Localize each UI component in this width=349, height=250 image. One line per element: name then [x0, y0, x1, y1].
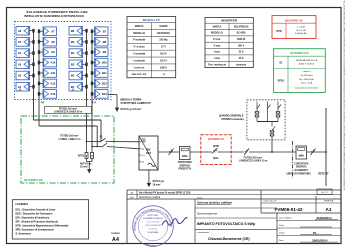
svg-text:B4: B4 [71, 51, 75, 55]
svg-text:ENERGIA: ENERGIA [180, 164, 191, 167]
svg-text:B11: B11 [102, 71, 107, 75]
PV module B6 [69, 26, 83, 35]
svg-text:I nominale: I nominale [133, 60, 145, 62]
svg-text:committente:: committente: [197, 231, 210, 234]
optimizer connector B9 [91, 50, 95, 54]
title field: data modifica [279, 216, 338, 220]
PV module A1 [16, 82, 30, 91]
svg-text:37 V: 37 V [161, 47, 166, 49]
label: formato A4 [111, 232, 121, 243]
svg-text:MTD : Interruttore Magnetoterm: MTD : Interruttore Magnetotermico Differ… [16, 224, 69, 227]
wire: PV structure earthing [108, 95, 119, 113]
label: quadro generale utente [219, 115, 244, 121]
optimizer connector A5 [30, 40, 35, 44]
PV module A2 [16, 71, 30, 80]
node (-) group B [72, 88, 75, 92]
svg-text:Diseg.: Diseg. [279, 232, 285, 234]
wire: meter M1 to quadro AC [190, 151, 212, 153]
wire: pole minus to switch [87, 141, 101, 143]
label: ac cable 10 m [239, 155, 268, 162]
svg-text:Codice Dis. N°: Codice Dis. N° [263, 201, 277, 203]
svg-text:presente: presente [236, 63, 246, 66]
svg-text:N07V-K gn 16 mm²: N07V-K gn 16 mm² [121, 107, 142, 111]
svg-text:P nom.: P nom. [213, 39, 221, 41]
optimizer connector A4 [30, 51, 35, 55]
optimizer connector A2 [30, 74, 35, 78]
switch S1 [99, 136, 107, 148]
PV module A10 [43, 58, 57, 67]
meter M1 (energia prodotta) [180, 147, 191, 160]
PV module B13 [95, 90, 109, 99]
wire: to meter M2 [249, 151, 296, 153]
svg-text:A4: A4 [18, 51, 22, 55]
node (-) group A [19, 88, 22, 92]
label: string cable 30 m [45, 106, 92, 113]
wire: string A minus to bus [34, 120, 102, 142]
svg-text:kWh: kWh [182, 155, 188, 158]
svg-text:A3: A3 [18, 62, 22, 66]
engineer stamp [133, 206, 174, 248]
optimizer connector B10 [91, 61, 95, 65]
node (+) group B [92, 100, 95, 104]
breaker MTD/DGL [212, 144, 219, 160]
svg-text:ND-R250A5: ND-R250A5 [157, 32, 170, 35]
grid busbar RETE BT [325, 108, 327, 186]
svg-text:B10: B10 [102, 61, 107, 65]
label: RETE BT [318, 172, 329, 175]
svg-text:tavola:: tavola: [197, 196, 203, 199]
margin note (rotated) [343, 0, 346, 190]
svg-text:A13: A13 [51, 92, 56, 96]
svg-text:IMPIANTO FOTOVOLTAICO 6 kWp: IMPIANTO FOTOVOLTAICO 6 kWp [197, 222, 256, 226]
svg-text:LEGENDA: LEGENDA [16, 202, 29, 206]
svg-text:Rev.: Rev. [130, 197, 135, 199]
PV module A8 [43, 37, 57, 46]
PV module A4 [16, 49, 30, 58]
svg-text:N07V-K gn: N07V-K gn [80, 163, 92, 165]
PV module A9 [43, 48, 57, 57]
svg-text:S: Generatore: S: Generatore [16, 232, 32, 235]
table: INVERTER [205, 17, 253, 67]
title block grid [127, 190, 341, 243]
svg-text:B12: B12 [102, 82, 107, 86]
svg-text:P nominale: P nominale [133, 40, 146, 42]
svg-text:B9: B9 [103, 50, 107, 54]
svg-text:30,3 V: 30,3 V [160, 54, 167, 56]
svg-text:QUADRO AC: QUADRO AC [208, 137, 225, 141]
optimizer connector A12 [38, 82, 43, 86]
svg-text:Up < 2600 V(dc): Up < 2600 V(dc) [299, 78, 314, 81]
optimizer connector B4 [83, 51, 88, 55]
optimizer connector B3 [83, 63, 88, 67]
svg-text:A9: A9 [51, 50, 55, 54]
inverter input terminals [139, 142, 145, 164]
svg-text:N07V-K gn: N07V-K gn [153, 181, 165, 183]
optimizer connector B13 [91, 92, 95, 96]
breaker DGL in QGU [270, 122, 275, 137]
svg-text:Denominazione:: Denominazione: [197, 211, 218, 215]
svg-text:LUNGH. LINEA 5 m: LUNGH. LINEA 5 m [59, 138, 81, 141]
svg-text:DGL : Dispositivo Generale di: DGL : Dispositivo Generale di Linea [16, 209, 56, 212]
QUADRO GENERALE UTENTE boundary (dashed box) [247, 100, 285, 140]
PV module B1 [69, 82, 83, 91]
PV generator boundary (dotted blue box) [15, 22, 112, 100]
PV module A3 [16, 60, 30, 69]
title field: impianto [197, 222, 256, 226]
wire: inverter AC output [158, 151, 180, 153]
PV module B4 [69, 49, 83, 58]
svg-text:INVERTER: INVERTER [221, 19, 237, 23]
PV module B12 [95, 79, 109, 88]
svg-text:INSTALLATI SU OGNI MODULO FOTO: INSTALLATI SU OGNI MODULO FOTOVOLTAICO [24, 14, 84, 18]
svg-text:STRUTTURA CAMPO PV: STRUTTURA CAMPO PV [121, 101, 152, 105]
table: MODULI PV [127, 17, 176, 78]
cable mark 3 [311, 149, 316, 156]
meter M2 (energia scambiata) [296, 146, 307, 159]
optimizer connector B12 [91, 82, 95, 86]
svg-text:MARCA: MARCA [213, 25, 222, 28]
label: inverter earth cable [153, 181, 165, 186]
svg-text:A10: A10 [51, 61, 56, 65]
svg-text:SPD1: SPD1 [278, 80, 285, 83]
svg-text:B13: B13 [102, 92, 107, 96]
svg-text:DGL: DGL [213, 156, 219, 160]
svg-text:23 A: 23 A [239, 51, 244, 54]
svg-text:MARCA: MARCA [135, 25, 144, 28]
svg-text:SOLAREDGE: SOLAREDGE [234, 25, 249, 28]
optimizer connector A11 [38, 71, 43, 75]
svg-text:A4: A4 [112, 237, 119, 243]
svg-text:iscrizione: iscrizione [149, 228, 157, 231]
title field: data [279, 238, 338, 242]
svg-text:Fg. 1/1: Fg. 1/1 [321, 192, 328, 194]
optimizer connector A10 [38, 61, 43, 65]
svg-text:B2: B2 [71, 74, 75, 78]
svg-text:Chizzoni-Bonemerse (CR): Chizzoni-Bonemerse (CR) [208, 237, 250, 241]
svg-text:25 A: 25 A [239, 57, 244, 60]
svg-text:MODULI PV: MODULI PV [143, 18, 161, 22]
label: SOLAREDGE POWERBOX note [24, 10, 88, 18]
svg-text:A1: A1 [325, 207, 332, 213]
svg-text:8,68 A: 8,68 A [160, 66, 167, 69]
svg-text:CONTATORE: CONTATORE [178, 161, 193, 164]
svg-text:Via G. Verdi 14: Via G. Verdi 14 [147, 221, 160, 224]
svg-text:SE 6000: SE 6000 [237, 33, 247, 35]
PV module B9 [95, 48, 109, 57]
svg-text:FORMATO: FORMATO [111, 232, 121, 235]
node (+) group A [41, 100, 44, 104]
PV module A7 [43, 27, 57, 36]
ground: inverter earth arrow [147, 183, 151, 187]
svg-text:QUADRO DC: QUADRO DC [24, 178, 44, 182]
title field: committente [197, 231, 250, 241]
wire: inverter earth [148, 170, 150, 184]
svg-text:Var.ti Moduli PV (prima 24 m: Var.ti Moduli PV (prima 24 moduli SPR0-1… [139, 192, 191, 195]
wire: meter M2 to grid [307, 151, 327, 153]
wire: DGL to AC line [271, 136, 273, 153]
feeder breaker at x=257 [255, 102, 260, 122]
optimizer connector B2 [83, 74, 88, 78]
string rail (+) group B [91, 31, 93, 146]
svg-text:V nominale: V nominale [133, 54, 146, 56]
optimizer connector B8 [91, 40, 95, 44]
optimizer connector B1 [83, 85, 88, 89]
string rail (-) group A [33, 31, 35, 120]
svg-text:Imax > 5 kA: Imax > 5 kA [301, 82, 313, 85]
svg-text:UTENTE (esistente): UTENTE (esistente) [221, 118, 243, 121]
svg-text:ENERGIA: ENERGIA [296, 166, 307, 169]
cable mark 2 [244, 149, 249, 156]
svg-text:B7: B7 [103, 29, 107, 33]
optimizer connector A13 [38, 92, 43, 96]
label: limite di fornitura [286, 172, 311, 175]
label: SPD earth cable [80, 163, 92, 168]
svg-text:A TERMINE DI LEGGE CI RISERVIA: A TERMINE DI LEGGE CI RISERVIAMO LA PROP… [343, 0, 346, 190]
svg-text:(-): (-) [142, 149, 144, 151]
QUADRO DC boundary (green dash-dot box) [21, 116, 114, 183]
title field: denominazione [197, 211, 218, 215]
table: QUADRO AC [272, 16, 316, 39]
svg-text:A6: A6 [18, 29, 22, 33]
title field: verifica A1 [324, 199, 334, 213]
svg-text:- A: - A [162, 73, 165, 76]
svg-text:SEZIONATORE DC2 A: SEZIONATORE DC2 A [296, 59, 318, 62]
wire: pole plus to switch [92, 146, 102, 148]
svg-text:Schema elettrico unifilare: Schema elettrico unifilare [197, 201, 233, 205]
svg-text:SOLAREDGE POWERBOX PB250-AOB: SOLAREDGE POWERBOX PB250-AOB [26, 10, 88, 14]
label: QUADRO AC [208, 137, 225, 141]
ground: SPD earth arrow [87, 169, 91, 173]
svg-text:A2: A2 [18, 74, 22, 78]
PV module B10 [95, 58, 109, 67]
svg-text:DC1: DC1 [146, 151, 152, 155]
wire: string A plus to bus [39, 126, 97, 147]
svg-text:(+): (+) [41, 100, 44, 104]
label: contatore energia prodotta [178, 161, 193, 170]
svg-text:VERIFICA: VERIFICA [324, 199, 334, 202]
svg-text:SPI : Sistema di Protezione In: SPI : Sistema di Protezione Interfaccia [16, 220, 59, 223]
svg-text:DOTT. ING.: DOTT. ING. [148, 215, 159, 217]
PV module A13 [43, 90, 57, 99]
svg-text:(-): (-) [142, 162, 144, 164]
svg-text:Id = 0,3 A: Id = 0,3 A [296, 29, 306, 32]
svg-text:MESSA A TERRA: MESSA A TERRA [121, 98, 142, 102]
PV module A11 [43, 69, 57, 78]
svg-text:(+): (+) [92, 100, 95, 104]
svg-text:SHARP: SHARP [159, 25, 168, 28]
wire: switch to inverter input 1 [106, 141, 140, 143]
svg-text:V max: V max [214, 45, 222, 47]
svg-text:25/06/2014: 25/06/2014 [317, 216, 332, 220]
svg-text:A8: A8 [51, 40, 55, 44]
svg-text:4,5kA 3p AC: 4,5kA 3p AC [295, 32, 307, 35]
signature [162, 218, 188, 226]
optimizer connector A8 [38, 40, 43, 44]
PV module B8 [95, 37, 109, 46]
svg-text:B5: B5 [71, 40, 75, 44]
svg-text:I max: I max [214, 58, 221, 60]
svg-text:(+): (+) [142, 142, 145, 144]
svg-text:I = 32 A: I = 32 A [297, 26, 305, 29]
svg-text:A12: A12 [51, 82, 56, 86]
svg-text:INV: INV [146, 148, 151, 152]
svg-text:I nom.: I nom. [214, 52, 221, 54]
table: QUADRO DC [274, 49, 326, 93]
svg-text:I corto cir.: I corto cir. [134, 66, 145, 69]
svg-text:Prot. interfaccia: Prot. interfaccia [208, 63, 226, 66]
revision header row [130, 196, 161, 199]
svg-text:LOCATELLI PAOLO: LOCATELLI PAOLO [143, 217, 164, 220]
svg-text:250 Wp: 250 Wp [159, 40, 168, 42]
svg-text:SCAMBIATA: SCAMBIATA [295, 169, 309, 172]
junction plus [91, 125, 98, 147]
svg-text:MODELLO: MODELLO [133, 33, 145, 35]
svg-text:RETE BT: RETE BT [318, 172, 329, 175]
PV module A6 [16, 26, 30, 35]
svg-text:SPD: Scaricatore di Sovratensi: SPD: Scaricatore di Sovratensione [16, 228, 55, 231]
PV module A5 [16, 38, 30, 47]
junction minus [86, 119, 88, 121]
svg-text:Data modifica: Data modifica [279, 216, 293, 219]
svg-text:(+): (+) [142, 155, 145, 157]
label: messa a terra struttura [121, 98, 152, 112]
optimizer connector B6 [83, 29, 88, 33]
svg-text:B3: B3 [71, 62, 75, 66]
svg-text:LUNGHEZZA LINEA 30 m: LUNGHEZZA LINEA 30 m [54, 111, 83, 114]
title field: disegnatore [279, 231, 332, 235]
svg-text:(-): (-) [72, 88, 75, 92]
svg-text:QUADRO AC: QUADRO AC [285, 18, 304, 22]
svg-text:PL: PL [313, 231, 317, 235]
svg-text:28/05/2014: 28/05/2014 [312, 238, 328, 242]
inverter U1 (DC/AC converter) [139, 136, 158, 170]
svg-text:DDG : Dispositivo del Generato: DDG : Dispositivo del Generatore [16, 213, 54, 216]
wire: SPD to earth [87, 158, 93, 169]
svg-text:N° A 29034: N° A 29034 [148, 231, 159, 234]
svg-text:MTD: MTD [276, 30, 281, 33]
svg-text:scaricatore di sovratensione: scaricatore di sovratensione [295, 86, 319, 89]
optimizer connector A6 [30, 29, 35, 33]
optimizer connector A1 [30, 85, 35, 89]
QUADRO AC boundary (red dashed box) [201, 135, 231, 165]
svg-text:LIMITE DI FORNITURA: LIMITE DI FORNITURA [286, 172, 311, 175]
svg-text:PRODOTTA: PRODOTTA [178, 168, 191, 171]
string rail (-) group B [86, 31, 88, 142]
svg-text:Scala: Scala [279, 225, 285, 227]
optimizer connector A7 [38, 29, 43, 33]
svg-text:8,24 A: 8,24 A [160, 59, 167, 62]
wire: SPD taps [86, 141, 93, 153]
wire: quadro AC internal [218, 151, 245, 153]
string rail (+) group A [38, 31, 40, 126]
svg-text:MODELLO: MODELLO [211, 33, 223, 35]
PV module A12 [43, 79, 57, 88]
svg-text:26100 CREMONA: 26100 CREMONA [145, 224, 161, 227]
PV module B11 [95, 69, 109, 78]
svg-text:max corr. inv.: max corr. inv. [132, 74, 147, 76]
optimizer connector A9 [38, 50, 43, 54]
svg-text:DDI : Dispositivo di Interfacc: DDI : Dispositivo di Interfaccia [16, 217, 50, 220]
label: QUADRO DC [24, 178, 44, 182]
PV module B2 [69, 71, 83, 80]
svg-text:A7: A7 [51, 29, 55, 33]
sheet tag box [317, 189, 332, 195]
svg-text:A 600 V 25 A DC: A 600 V 25 A DC [299, 63, 315, 66]
svg-text:FVM06-01-42: FVM06-01-42 [274, 207, 303, 212]
svg-text:Descrizione modifica: Descrizione modifica [139, 196, 161, 199]
title field: tavola [197, 196, 233, 204]
svg-text:Uc 600 V(dc): Uc 600 V(dc) [301, 75, 313, 77]
optimizer connector B5 [83, 40, 88, 44]
PV module B3 [69, 60, 83, 69]
svg-text:V° a vuoto: V° a vuoto [133, 46, 145, 49]
svg-text:500 V: 500 V [238, 45, 245, 47]
PV module B5 [69, 38, 83, 47]
legend box [12, 200, 88, 239]
svg-text:B8: B8 [103, 40, 107, 44]
QGU bus [257, 121, 278, 123]
optimizer connector B11 [91, 71, 95, 75]
svg-text:LUNGHEZZA LINEA 10 m: LUNGHEZZA LINEA 10 m [239, 160, 268, 163]
feeder breaker at x=267.5 [268, 102, 271, 122]
optimizer connector A3 [30, 63, 35, 67]
boundary line: limite di fornitura [292, 141, 294, 178]
svg-text:A5: A5 [18, 40, 22, 44]
cable mark 1 [169, 149, 174, 156]
title field: scala [279, 225, 332, 227]
svg-text:SPD1: SPD1 [78, 155, 85, 158]
svg-text:kWh: kWh [299, 154, 305, 157]
svg-text:B6: B6 [71, 29, 75, 33]
revision row A0 [131, 190, 191, 199]
svg-text:QUADRO DC: QUADRO DC [290, 51, 309, 55]
wire: switch to inverter input 2 [107, 147, 139, 149]
svg-text:A11: A11 [51, 71, 56, 75]
svg-text:classe II: classe II [303, 71, 311, 73]
optimizer connector B7 [91, 29, 95, 33]
svg-text:MTD: MTD [213, 144, 219, 148]
surge arrester SPD1 [78, 153, 94, 159]
label: dc cable 5 m [59, 134, 81, 141]
svg-text:(-): (-) [19, 88, 22, 92]
title field: codice disegno [263, 201, 303, 212]
svg-text:6000 W: 6000 W [237, 39, 246, 41]
feeder breaker at x=278 [276, 102, 281, 122]
svg-text:CONTATORE: CONTATORE [294, 162, 309, 165]
PV module B7 [95, 27, 109, 36]
label: contatore energia scambiata [294, 162, 309, 171]
